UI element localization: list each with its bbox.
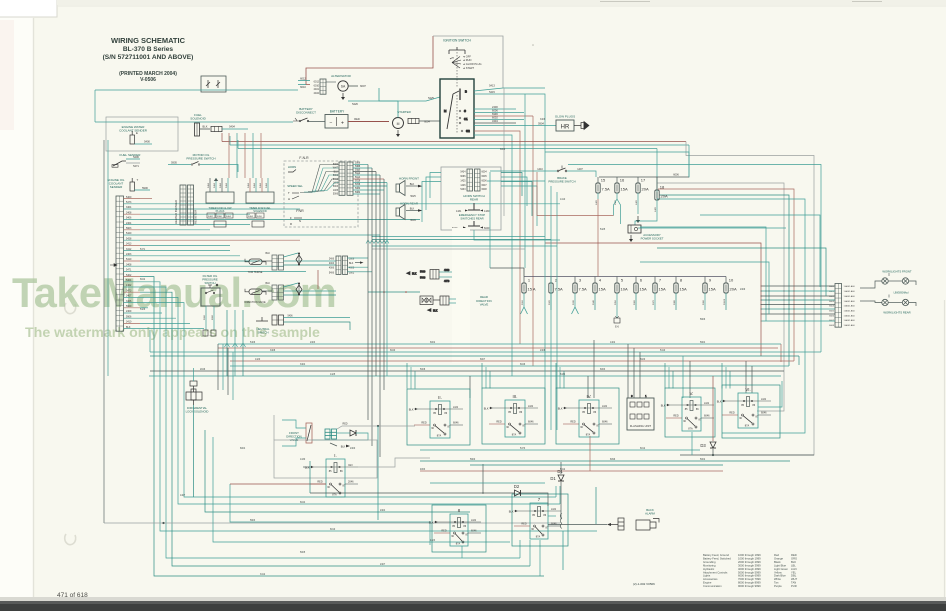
- svg-text:Light Blue: Light Blue: [774, 563, 786, 567]
- svg-text:IGNITION SWITCH: IGNITION SWITCH: [443, 39, 471, 43]
- svg-text:5404: 5404: [220, 182, 222, 188]
- svg-text:5025: 5025: [410, 195, 416, 198]
- fuse17 down wire: [637, 199, 639, 214]
- svg-text:5412: 5412: [333, 179, 339, 181]
- punch hole upper: [65, 303, 76, 314]
- fuse18 down to socket: [635, 206, 657, 225]
- svg-text:5473: 5473: [126, 201, 132, 204]
- svg-text:T: T: [137, 178, 139, 182]
- brake switch A wire right: [567, 171, 596, 177]
- fuse1 fork: [521, 307, 528, 314]
- svg-text:TakeManual.com: TakeManual.com: [12, 269, 336, 316]
- bus y148 chain right: [656, 149, 658, 200]
- svg-text:3408: 3408: [270, 350, 276, 352]
- svg-text:6004: 6004: [410, 219, 416, 222]
- left strip bus wires upper: [140, 199, 560, 251]
- svg-text:6906: 6906: [212, 314, 214, 320]
- relay II: [407, 389, 470, 445]
- svg-text:3412: 3412: [260, 574, 266, 576]
- relay7 to back alarm wire: [548, 524, 607, 526]
- horn rear pin labels: [460, 172, 487, 192]
- svg-text:87A: 87A: [745, 425, 750, 428]
- svg-text:WIRING SCHEMATIC: WIRING SCHEMATIC: [111, 36, 186, 45]
- bundle y366: [230, 365, 789, 367]
- engine oil sender wire 5900: [135, 189, 151, 191]
- svg-text:6600: 6600: [829, 286, 835, 288]
- svg-text:5020: 5020: [355, 188, 361, 190]
- bus left turn 238: [237, 140, 239, 149]
- svg-text:1410: 1410: [537, 168, 543, 171]
- engine water coolant sender box: [106, 117, 178, 151]
- fuel solenoid wire blk: [200, 128, 211, 130]
- svg-text:2404: 2404: [329, 263, 335, 265]
- svg-text:BLK: BLK: [433, 309, 438, 312]
- filter oil switch bottom wires: [203, 306, 216, 336]
- front valve diode out: [312, 433, 368, 440]
- svg-text:6010: 6010: [330, 529, 336, 531]
- ignition rotary labels: [463, 55, 482, 70]
- relay8 top wire: [461, 546, 463, 558]
- svg-text:Purple: Purple: [774, 584, 782, 588]
- fuse bank feed bus: [599, 176, 689, 178]
- svg-text:4008: 4008: [349, 268, 355, 270]
- bundle y344 end tick: [780, 344, 782, 362]
- svg-text:1405: 1405: [333, 190, 339, 192]
- horn rear connector A: [467, 169, 473, 191]
- svg-text:5008: 5008: [355, 166, 361, 168]
- svg-text:O: O: [216, 283, 218, 287]
- svg-text:5406: 5406: [250, 342, 256, 344]
- bundle junction verticals mid: [218, 165, 752, 458]
- fan wire y199: [657, 199, 805, 433]
- svg-text:5413: 5413: [489, 84, 495, 88]
- svg-text:1 A601 A60: 1 A601 A60: [844, 300, 856, 303]
- fuse 2 top stub: [550, 277, 552, 284]
- svg-text:BLK: BLK: [412, 273, 417, 276]
- below relays y471: [420, 470, 723, 472]
- svg-text:5404: 5404: [254, 182, 256, 188]
- left vert 150a: [149, 330, 151, 352]
- svg-text:2406: 2406: [329, 259, 335, 261]
- svg-text:5404: 5404: [248, 182, 250, 188]
- svg-text:BLK: BLK: [265, 252, 270, 255]
- svg-text:6046: 6046: [602, 421, 608, 424]
- svg-text:BLK: BLK: [717, 400, 722, 403]
- connector strip pin wires: [124, 196, 141, 329]
- svg-text:2403: 2403: [126, 253, 132, 256]
- timer for fuel solenoid box: [246, 192, 274, 203]
- fuse 1 bottom stub: [523, 293, 525, 307]
- fuse 8 top stub: [675, 277, 677, 284]
- svg-text:5471: 5471: [140, 249, 146, 251]
- aux right strip labels: [329, 259, 355, 275]
- svg-text:6010: 6010: [314, 84, 320, 87]
- svg-text:5404: 5404: [226, 182, 228, 188]
- coolant sender symbol: [130, 131, 138, 144]
- relay V down wire: [691, 432, 693, 455]
- left strip last rows: [140, 308, 204, 329]
- svg-text:◄ GLOW PLUG: ◄ GLOW PLUG: [463, 62, 482, 66]
- svg-text:1402: 1402: [126, 284, 132, 287]
- fnr contacts: [290, 216, 302, 226]
- diode D3: [710, 442, 716, 448]
- svg-text:Engine: Engine: [703, 581, 712, 585]
- aux bottom wire 478 red: [230, 483, 326, 485]
- ignition bottom pin wire2: [474, 135, 512, 376]
- bundle y352: [150, 351, 821, 353]
- D2 wires: [483, 464, 514, 493]
- nest up 556: [555, 486, 557, 497]
- brake pressure switch A symbol: [557, 166, 567, 172]
- svg-text:2400: 2400: [350, 448, 356, 450]
- svg-text:6608: 6608: [829, 325, 835, 327]
- filter oil switch internals: [205, 283, 218, 294]
- svg-text:M: M: [397, 122, 400, 126]
- front direction valve symbol: [306, 423, 312, 443]
- aux bottom wire 493: [310, 492, 483, 494]
- svg-text:2046: 2046: [348, 481, 354, 484]
- svg-text:IV.: IV.: [587, 394, 592, 399]
- svg-text:6040: 6040: [390, 350, 396, 352]
- right scan edge: [944, 300, 946, 600]
- worklight front wiring2: [888, 280, 902, 282]
- svg-text:WHT: WHT: [333, 168, 339, 170]
- alternator wires to connector: [326, 81, 336, 83]
- svg-text:17: 17: [641, 178, 646, 183]
- back alarm arrow: [607, 523, 611, 526]
- top edge shading: [57, 0, 946, 5]
- svg-text:Grounding: Grounding: [703, 560, 716, 564]
- svg-text:T: T: [288, 191, 290, 195]
- svg-text:15A: 15A: [680, 287, 687, 292]
- svg-text:3408: 3408: [126, 263, 132, 266]
- svg-text:RED: RED: [521, 523, 526, 526]
- svg-text:BLK: BLK: [349, 263, 354, 265]
- bundle y356 end: [798, 356, 800, 365]
- svg-text:Monitoring: Monitoring: [703, 563, 716, 567]
- svg-text:BLK: BLK: [409, 408, 414, 411]
- nest up into relay8: [429, 521, 431, 545]
- svg-text:ACCESSORYPOWER SOCKET: ACCESSORYPOWER SOCKET: [641, 233, 664, 240]
- svg-text:Red: Red: [774, 553, 779, 557]
- fuse 10 bottom stub: [725, 293, 727, 310]
- svg-text:7.5A: 7.5A: [555, 287, 564, 292]
- nest up relay7 b: [529, 540, 531, 566]
- svg-text:5904: 5904: [700, 342, 706, 344]
- svg-text:4063: 4063: [420, 469, 426, 471]
- svg-text:LGN: LGN: [551, 508, 556, 511]
- svg-text:5412: 5412: [560, 469, 566, 471]
- svg-text:1 A601 A60: 1 A601 A60: [844, 305, 856, 308]
- heater blower connector B: [188, 185, 194, 225]
- svg-text:5906: 5906: [126, 315, 132, 318]
- FNR connector strip B: [347, 162, 353, 195]
- svg-text:Lights: Lights: [703, 574, 711, 578]
- horn emergency enclosure: [441, 167, 501, 230]
- horn rear connector B: [475, 169, 481, 191]
- horn rear right out wires: [501, 173, 537, 227]
- svg-text:BL-370 B Series: BL-370 B Series: [123, 46, 174, 53]
- left vert 108: [107, 140, 109, 376]
- svg-text:4000 through 4999: 4000 through 4999: [738, 567, 761, 571]
- svg-text:1 A601 A60: 1 A601 A60: [844, 324, 856, 327]
- horn rear arrow: [418, 209, 423, 212]
- svg-text:3410: 3410: [126, 321, 132, 324]
- svg-text:5906: 5906: [700, 319, 706, 321]
- svg-text:2046: 2046: [200, 369, 206, 371]
- aux strip pair left direction valve aux: [272, 285, 284, 300]
- svg-text:87A: 87A: [688, 428, 693, 431]
- svg-text:RED: RED: [791, 553, 797, 557]
- svg-text:1423: 1423: [333, 183, 339, 185]
- fuse 18: [655, 185, 668, 201]
- worklight front wiring3: [909, 281, 916, 285]
- svg-text:LGN: LGN: [791, 567, 797, 571]
- svg-text:5410: 5410: [126, 258, 132, 261]
- accessory socket ground: [629, 235, 633, 242]
- horn front wire blk: [406, 185, 418, 187]
- svg-text:5400: 5400: [144, 140, 150, 144]
- svg-text:5020: 5020: [549, 299, 551, 305]
- svg-text:BLK: BLK: [341, 446, 346, 449]
- left scan strip: [0, 0, 33, 611]
- svg-text:5005: 5005: [300, 552, 306, 554]
- rear valve symbol: [420, 296, 456, 312]
- fuse17 ground: [636, 216, 640, 223]
- svg-text:5428: 5428: [126, 237, 132, 240]
- svg-text:2408: 2408: [126, 211, 132, 214]
- svg-text:6005: 6005: [482, 176, 488, 178]
- diff lock wire down: [193, 405, 195, 497]
- svg-text:1402: 1402: [610, 342, 616, 344]
- svg-text:FLASHING UNIT: FLASHING UNIT: [630, 424, 652, 428]
- relay VI right to chain: [758, 381, 782, 407]
- svg-text:87A: 87A: [512, 434, 517, 437]
- svg-text:15 A: 15 A: [528, 287, 536, 292]
- svg-text:3406: 3406: [126, 300, 132, 303]
- fuse 5 bottom stub: [616, 293, 618, 307]
- svg-text:6046: 6046: [471, 530, 477, 533]
- front valve junction drop: [377, 426, 379, 520]
- svg-text:5903: 5903: [250, 520, 256, 522]
- battery feed long line: [95, 121, 293, 123]
- svg-text:5404: 5404: [226, 216, 232, 218]
- svg-text:6046: 6046: [528, 421, 534, 424]
- svg-text:III.: III.: [513, 394, 518, 399]
- fuse 1 top stub: [523, 277, 525, 284]
- speed sel contacts: [288, 191, 299, 201]
- fuse 2 mid row: [549, 278, 563, 294]
- svg-text:5012: 5012: [355, 173, 361, 175]
- svg-text:DIFFERENTIALLOCK SOLENOID: DIFFERENTIALLOCK SOLENOID: [186, 406, 209, 413]
- relay VI: [717, 385, 780, 438]
- back alarm connector: [618, 518, 659, 530]
- svg-text:6012: 6012: [314, 81, 320, 84]
- relay 7 connector arcs: [560, 514, 562, 529]
- svg-text:2402: 2402: [314, 92, 320, 95]
- fuse 9 mid row: [703, 278, 716, 294]
- worklights connector strip: [835, 284, 842, 328]
- svg-text:E: E: [136, 131, 138, 135]
- svg-text:2409: 2409: [126, 310, 132, 313]
- relay I: [305, 453, 358, 497]
- starter top teal wire: [379, 88, 398, 118]
- svg-text:RED: RED: [317, 481, 322, 484]
- svg-text:5404: 5404: [126, 279, 132, 282]
- svg-text:6606: 6606: [829, 315, 835, 317]
- svg-text:2404: 2404: [126, 222, 132, 225]
- svg-text:HORN REAR: HORN REAR: [400, 202, 419, 206]
- horn front arrow: [418, 185, 423, 188]
- svg-text:5070: 5070: [653, 299, 655, 305]
- fuse 3 mid row: [573, 278, 587, 294]
- front direction valve connectors: [325, 429, 337, 439]
- alternator output wire: [348, 85, 358, 87]
- svg-text:6604: 6604: [829, 306, 835, 308]
- svg-text:D3: D3: [700, 443, 706, 448]
- svg-text:2400: 2400: [492, 105, 498, 109]
- svg-text:6004: 6004: [240, 448, 246, 450]
- scan mark top b: [852, 1, 882, 3]
- nest up relay7 c: [519, 540, 521, 558]
- FNR internal wires: [300, 165, 339, 193]
- diode D2: [515, 490, 521, 496]
- fuse 2 bottom stub: [550, 293, 552, 310]
- FNR pin wires right: [353, 165, 387, 195]
- worklight rear tick: [888, 295, 890, 298]
- svg-text:HR: HR: [561, 125, 570, 131]
- instrument harness connector strip: [116, 196, 124, 331]
- D2 junction: [482, 492, 484, 494]
- drop x504: [503, 88, 505, 216]
- horn rear wire blk: [406, 210, 418, 212]
- svg-text:4063: 4063: [444, 269, 450, 272]
- svg-text:6603: 6603: [829, 301, 835, 303]
- svg-text:6004: 6004: [482, 172, 488, 174]
- svg-text:BLK: BLK: [661, 404, 666, 407]
- fuel sender symbol: [112, 161, 126, 167]
- fuse 4 mid row: [593, 278, 606, 294]
- flashing unit pins: [630, 394, 649, 419]
- svg-text:2409: 2409: [740, 289, 746, 291]
- svg-text:6007: 6007: [482, 185, 488, 187]
- svg-text:V-0506: V-0506: [140, 77, 156, 83]
- svg-text:16: 16: [620, 178, 625, 183]
- aux diode tow switch: [296, 253, 302, 265]
- svg-text:1425: 1425: [460, 180, 466, 182]
- starter circle: [393, 118, 404, 129]
- svg-text:5000 through 5999: 5000 through 5999: [738, 570, 761, 574]
- ignition switch internals: [444, 89, 470, 134]
- fuse 7 mid row: [653, 278, 666, 294]
- D1 wire top: [560, 462, 562, 474]
- timer glow plugs top pins: [208, 178, 228, 192]
- FNR vertical forks: [366, 240, 389, 244]
- fuse16 top stub: [616, 177, 618, 183]
- fuse row feed vertical: [489, 172, 491, 268]
- nest mid 542: [213, 437, 510, 542]
- svg-text:DBL: DBL: [791, 574, 797, 578]
- svg-text:Battery Feed, Ground: Battery Feed, Ground: [703, 553, 729, 557]
- relay I enclosure: [274, 440, 377, 478]
- bundle y371: [150, 370, 784, 372]
- fuse 16: [615, 178, 628, 194]
- teal branch to ignition: [379, 97, 440, 101]
- bus y152 to fuse bank: [545, 152, 689, 177]
- left strip lower rows turning down to bottom nest: [140, 277, 597, 576]
- svg-text:E-6: E-6: [615, 326, 619, 329]
- svg-text:20A: 20A: [661, 194, 668, 199]
- svg-text:15A: 15A: [621, 187, 628, 192]
- svg-text:7.5A: 7.5A: [579, 287, 588, 292]
- svg-text:5471: 5471: [126, 269, 132, 272]
- svg-text:RESISTOR: RESISTOR: [194, 210, 198, 224]
- neutral switch out 1: [284, 317, 351, 319]
- svg-text:1407: 1407: [577, 168, 583, 171]
- relay IV down wire: [589, 436, 591, 471]
- fuse15 down wire: [597, 199, 599, 268]
- fuel sender wire 5406: [126, 158, 140, 160]
- svg-text:1000 through 1999: 1000 through 1999: [738, 553, 761, 557]
- svg-text:(S/N 572711001 AND ABOVE): (S/N 572711001 AND ABOVE): [103, 54, 194, 61]
- relay I left wire: [303, 466, 310, 468]
- svg-text:15A: 15A: [640, 287, 647, 292]
- relay III: [482, 388, 545, 444]
- relay I right wire: [358, 458, 430, 467]
- svg-text:6006: 6006: [673, 174, 679, 177]
- svg-text:5002: 5002: [349, 272, 355, 274]
- aux oval switch tow switch: [245, 259, 266, 274]
- bus y145 chain right: [688, 145, 690, 178]
- svg-text:ALTERNATOR: ALTERNATOR: [331, 74, 352, 78]
- fuse 6 bottom stub: [635, 293, 637, 310]
- relay IV: [556, 388, 619, 444]
- svg-text:+: +: [341, 121, 344, 127]
- svg-text:PUR: PUR: [791, 584, 797, 588]
- svg-text:V.: V.: [690, 391, 694, 396]
- FNR connector strip A: [339, 162, 345, 195]
- svg-text:LBL: LBL: [791, 563, 796, 567]
- rear valve wire y292: [368, 291, 420, 293]
- svg-text:ORG: ORG: [791, 556, 797, 560]
- svg-text:3404: 3404: [126, 206, 132, 209]
- svg-text:SA: SA: [341, 85, 346, 89]
- svg-text:2000 through 2999: 2000 through 2999: [738, 560, 761, 564]
- drop x533: [532, 116, 534, 366]
- horn rear out 6040 bottom: [474, 230, 560, 240]
- battery to starter wire red: [348, 121, 389, 123]
- svg-text:Orange: Orange: [774, 556, 783, 560]
- svg-text:5434: 5434: [460, 172, 466, 174]
- scattered wire number labels: [140, 119, 746, 576]
- bus left turn 222: [221, 133, 223, 142]
- svg-text:6007: 6007: [480, 359, 486, 361]
- worklights connector to rear: [860, 300, 870, 302]
- svg-text:WORKLIGHTS FRONT: WORKLIGHTS FRONT: [882, 270, 912, 274]
- nest gray L: [104, 522, 560, 524]
- svg-text:6096: 6096: [610, 459, 616, 461]
- svg-text:RED: RED: [729, 412, 734, 415]
- svg-text:6012: 6012: [300, 76, 306, 80]
- fuse18 top stub: [656, 177, 658, 190]
- aux rows vertical link: [317, 270, 319, 289]
- worklight rear wiring2: [888, 302, 902, 304]
- fuse 7 top stub: [654, 277, 656, 284]
- worklights connector to front: [860, 287, 870, 289]
- timer feed verticals: [229, 133, 261, 178]
- svg-text:1 A601 A60: 1 A601 A60: [844, 295, 856, 298]
- relay 7 to D3 riser: [595, 487, 597, 524]
